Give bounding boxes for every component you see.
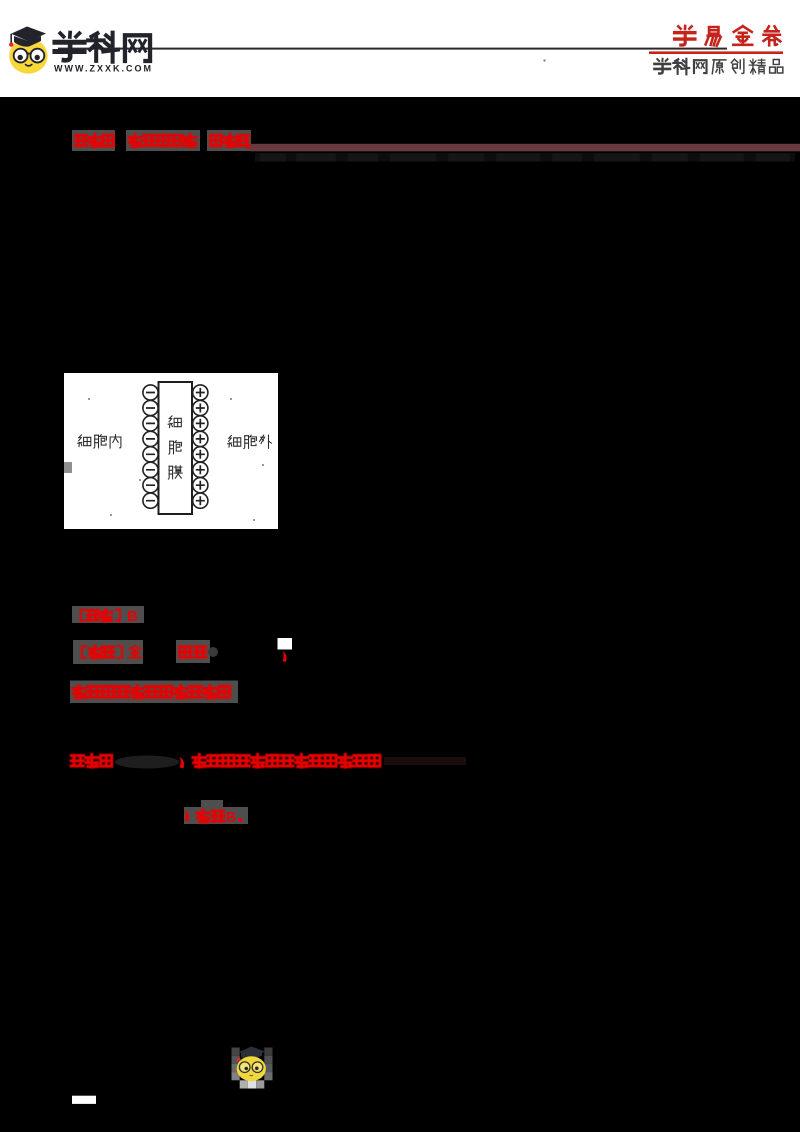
right header: xueyi jinjuan red title bbox=[544, 26, 784, 74]
dark ellipse smudge bbox=[115, 756, 179, 769]
logo zxxk group bbox=[9, 27, 153, 74]
positive ion circles (right column) bbox=[193, 385, 208, 508]
logo tassel bbox=[10, 34, 12, 44]
explanation row highlight bbox=[70, 681, 238, 704]
subtitle: xuekewang yuanchuang jingpin 学科网原创精品 bbox=[654, 59, 670, 74]
answer row red text bbox=[81, 609, 120, 621]
body content bbox=[64, 130, 800, 1104]
analysis row red text 2 bbox=[180, 647, 206, 658]
deduction row red text right bbox=[193, 754, 380, 767]
conclusion red comma bbox=[185, 810, 190, 822]
bottom watermark glasses bbox=[239, 1062, 250, 1073]
conclusion row highlight bbox=[184, 807, 248, 824]
title char yi 易 red bbox=[706, 27, 721, 46]
analysis row highlight 2 bbox=[176, 640, 210, 663]
logo graduation cap bbox=[11, 27, 46, 42]
bottom watermark tassel dot bbox=[237, 1058, 240, 1061]
logo text wang 网 bbox=[125, 35, 150, 61]
header white band bbox=[0, 0, 800, 97]
svg-text:B: B bbox=[127, 608, 138, 625]
red comma bbox=[283, 652, 287, 663]
logo text ke 科 bbox=[88, 33, 118, 62]
diagram noise specks bbox=[88, 395, 264, 521]
analysis row red text 1 bbox=[82, 645, 141, 658]
logo mouth bbox=[26, 65, 32, 66]
logo text xue 学 bbox=[55, 33, 84, 61]
analysis row highlight 1 bbox=[73, 640, 143, 664]
title char jin 金 red bbox=[733, 26, 752, 45]
negative ion circles (left column) bbox=[143, 385, 158, 508]
small speck in header bbox=[544, 60, 546, 62]
label xi bao wai 细胞外 bbox=[228, 435, 241, 447]
diagram white panel bbox=[64, 373, 278, 529]
logo eyes bbox=[18, 55, 23, 60]
red heading row highlight boxes bbox=[72, 130, 115, 151]
header horizontal black rule bbox=[58, 48, 727, 50]
membrane rectangle bbox=[159, 382, 193, 514]
diagram edge smudge bbox=[64, 462, 72, 473]
conclusion red text bbox=[197, 810, 224, 822]
bottom watermark cap bbox=[239, 1047, 265, 1058]
minus signs bbox=[146, 393, 155, 501]
plus signs bbox=[196, 388, 205, 505]
small white box bbox=[278, 638, 293, 650]
logo face bbox=[9, 38, 47, 73]
red underline bbox=[649, 51, 783, 54]
svg-text:B: B bbox=[226, 809, 236, 825]
answer row highlight bbox=[72, 606, 144, 623]
maroon strike bar bbox=[250, 144, 800, 152]
bottom watermark eyes bbox=[245, 1067, 249, 1071]
red heading row text blobs bbox=[75, 134, 250, 148]
title char juan 卷 red bbox=[764, 26, 781, 45]
logo glasses bbox=[14, 49, 28, 63]
bottom-left white box bbox=[72, 1096, 96, 1104]
svg-text:WWW.ZXXK.COM: WWW.ZXXK.COM bbox=[54, 64, 153, 74]
label xi bao nei 细胞内 bbox=[78, 435, 91, 447]
bottom watermark face bbox=[237, 1056, 266, 1081]
deduction row red text left bbox=[71, 754, 112, 767]
bottom watermark mouth bbox=[250, 1074, 254, 1077]
faint dark tail bar bbox=[384, 757, 466, 765]
faint dark text row under bar bbox=[255, 153, 795, 162]
dark dot after text bbox=[208, 647, 218, 657]
bottom watermark checker squares bbox=[232, 1048, 273, 1089]
explanation row red text bbox=[73, 685, 230, 698]
membrane label xi bao mo 细胞膜 vertical bbox=[168, 416, 181, 428]
red comma mark bbox=[180, 757, 185, 769]
title char xue 学 red bbox=[675, 26, 695, 45]
